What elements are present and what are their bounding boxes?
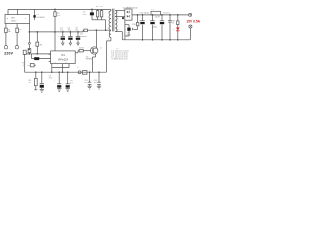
capacitor C4 (61, 32, 65, 43)
LED VD3 red indicator (173, 25, 180, 40)
winding polarity dot (122, 17, 124, 19)
svg-text:C1: C1 (36, 14, 40, 16)
resistor R6 (34, 72, 37, 89)
ground C15 (87, 86, 91, 89)
transformer T1 core (113, 9, 114, 32)
label C5 (68, 27, 71, 31)
junction dot bus cap C4 (62, 31, 64, 33)
junction dot gnd bus x177.8 (177, 39, 179, 41)
wire Q1 source (92, 54, 95, 72)
ground C9 (40, 89, 44, 92)
junction dot IC top feed (54, 31, 56, 33)
label output 15V 0.5A (186, 20, 200, 24)
diode D3 to IC (32, 54, 51, 60)
label C7 (49, 75, 52, 79)
transistor Q1 mosfet (91, 47, 98, 54)
wire AC live drop (5, 24, 7, 46)
label R3 (40, 44, 42, 46)
label RT1 (19, 29, 22, 33)
ground C16 (97, 86, 101, 89)
label R1 value (57, 13, 60, 17)
wire bias return (107, 37, 111, 72)
svg-text:4.7: 4.7 (23, 65, 27, 67)
label C4 (60, 27, 63, 31)
svg-text:L1: L1 (151, 9, 154, 11)
svg-text:C3: C3 (100, 6, 104, 8)
junction dot rail C13 (169, 14, 171, 16)
resistor R7 gate (79, 50, 83, 52)
svg-text:0.1: 0.1 (70, 82, 74, 84)
resistor R4 (23, 50, 26, 54)
label L1 (151, 9, 154, 11)
snubber capacitor C3 (100, 9, 102, 19)
capacitor C16 (97, 71, 101, 86)
fuse F1 (5, 28, 8, 32)
label 220V mains (4, 51, 13, 55)
wire +15V output rail (132, 14, 189, 16)
svg-text:R2: R2 (96, 6, 100, 8)
svg-text:0.1/400V: 0.1/400V (36, 17, 45, 19)
junction dot rail R10 (137, 14, 139, 16)
svg-text:C10 1000u: C10 1000u (139, 13, 149, 15)
thermistor RT1 (16, 28, 19, 32)
IC left pin stub a (49, 53, 51, 55)
pin label D mosfet (100, 47, 102, 49)
transformer T1 secondary winding (115, 10, 117, 31)
svg-text:2W10: 2W10 (11, 20, 17, 22)
wire bottom return bus (25, 71, 107, 73)
label C13 above rail (163, 13, 171, 15)
bridge rectifier BR1 (5, 15, 30, 24)
resistor R9 on return bus (82, 71, 87, 75)
svg-text:+: + (173, 29, 175, 31)
wire secondary top to D2 (115, 9, 125, 11)
resistor R10 feedback (134, 15, 139, 30)
resistor R3 (36, 32, 39, 54)
svg-text:15V 0.5A: 15V 0.5A (186, 20, 200, 24)
junction dot gnd bus x152.5 (152, 39, 154, 41)
wire secondary centertap (115, 32, 122, 40)
svg-text:R3: R3 (40, 44, 42, 46)
label R6 (28, 80, 31, 84)
plus mark C4 (58, 36, 60, 38)
note text block transformer data (111, 48, 129, 61)
wire IC ground bus (51, 68, 69, 73)
wire AC neutral drop (16, 24, 18, 46)
junction dot bus cap C6 (77, 31, 79, 33)
label R4 value (23, 63, 27, 67)
svg-text:a: a (77, 67, 79, 69)
pin number 7 secondary bottom (117, 30, 118, 32)
node TP circle (77, 67, 81, 74)
snubber resistor R2 (96, 9, 98, 19)
junction dot minus bus (29, 31, 31, 33)
label R2 above rail (96, 6, 100, 8)
junction dot rail C12 (161, 14, 163, 16)
capacitor C7 (54, 71, 62, 88)
svg-text:473: 473 (84, 82, 87, 84)
label R7 (79, 48, 84, 50)
svg-text:102: 102 (94, 82, 97, 84)
zener VD2 mark (132, 28, 133, 30)
output terminal plus (189, 13, 192, 16)
wire top DC+ rail (8, 8, 111, 10)
svg-text:1A: 1A (8, 30, 11, 33)
svg-text:1k: 1k (172, 23, 174, 25)
IC bottom pin 2 (63, 62, 67, 67)
inductor L1 on rail (151, 11, 161, 15)
output terminal minus (189, 25, 192, 28)
pin number 6 secondary mid (117, 19, 118, 21)
svg-text:D: D (100, 47, 102, 49)
capacitor C9 (40, 72, 44, 89)
label C2 value (83, 12, 87, 16)
junction dot gnd bus x162 (161, 39, 163, 41)
label Q1 (86, 56, 92, 60)
svg-text:VIPer22A: VIPer22A (58, 59, 69, 62)
resistor R8 LED series (177, 15, 179, 25)
label C15 (84, 80, 87, 84)
svg-text:+: + (54, 80, 56, 82)
arrow terminal C6 (77, 43, 80, 45)
arrow terminal C5 (69, 43, 72, 45)
capacitor C11 (150, 15, 155, 40)
svg-text:6: 6 (65, 62, 66, 64)
transformer T1 bias winding (109, 31, 111, 38)
diode D1 snubber (83, 29, 87, 32)
junction dot gnd bus x170 (169, 39, 171, 41)
IC left pin stub b (49, 60, 51, 62)
ground R6 (34, 89, 37, 91)
label F1 (8, 29, 11, 33)
wire snubber bottom join (92, 20, 106, 30)
capacitor C1 body (33, 9, 35, 20)
pin number 2 primary bottom (108, 28, 109, 30)
capacitor C10 (139, 15, 144, 40)
svg-text:+: + (125, 29, 127, 31)
svg-text:47n: 47n (75, 30, 78, 32)
label C6 (75, 27, 78, 31)
wire D2 common return (125, 20, 129, 40)
pin number 1 (57, 53, 58, 55)
svg-text:2: 2 (108, 28, 109, 30)
wire feedback node (25, 53, 51, 55)
arrow terminal C4 (62, 43, 65, 45)
label R10 (132, 24, 135, 26)
capacitor C12 (160, 15, 164, 40)
svg-text:IC1: IC1 (61, 54, 65, 57)
junction dot rail C10 (142, 14, 144, 16)
svg-text:1: 1 (19, 31, 21, 33)
capacitor C8 (66, 71, 70, 88)
wire DC minus bus (29, 30, 83, 32)
wire minus rail drop (28, 24, 30, 43)
resistor R1 startup (54, 9, 56, 32)
op IC U1 controller (51, 51, 76, 64)
svg-text:5: 5 (117, 12, 118, 14)
IC bottom pin 3 (68, 64, 70, 68)
chassis arrow (28, 43, 31, 45)
label C11 value below (152, 27, 157, 29)
svg-text:470u: 470u (127, 35, 131, 37)
svg-text:IRF840: IRF840 (86, 59, 92, 61)
label D2 type (123, 7, 139, 9)
ground C7 (57, 89, 61, 92)
label R8 (172, 20, 175, 24)
capacitor C15 (88, 71, 92, 86)
wire R4 down (24, 54, 26, 72)
junction dot C9 (41, 71, 43, 73)
svg-text:3: 3 (108, 38, 109, 40)
svg-text:47u: 47u (83, 14, 87, 16)
svg-text:R7 47: R7 47 (79, 48, 84, 50)
svg-text:47u: 47u (49, 78, 52, 80)
AC terminal N (15, 46, 18, 49)
ground C8 (66, 89, 70, 92)
capacitor C5 (68, 32, 72, 43)
capacitor C9 electrolytic (125, 25, 131, 36)
wire IC top pin (54, 32, 56, 51)
junction dot rail LED (177, 14, 179, 16)
label D1 value (80, 34, 88, 39)
junction dot bus cap C5 (70, 31, 72, 33)
thermistor RV1 (28, 45, 31, 54)
label C1 value (36, 14, 45, 19)
wire gate (83, 50, 90, 52)
resistor R5 horizontal (27, 64, 36, 68)
junction dot R3 branch (36, 31, 38, 33)
wire drain node (87, 29, 111, 31)
svg-text:+: + (58, 36, 60, 38)
capacitor C2 electrolytic (90, 9, 94, 19)
AC terminal L (4, 46, 7, 49)
pin number 3 bias (108, 38, 109, 40)
wire IC drive out (75, 51, 79, 53)
label L1 value below (155, 17, 161, 19)
svg-text:10u: 10u (68, 30, 71, 32)
svg-text:1000u: 1000u (152, 27, 157, 29)
svg-text:D2 MBRF10100: D2 MBRF10100 (123, 7, 139, 9)
capacitor C13 ceramic (168, 15, 172, 40)
IC bottom pin 1 (52, 62, 56, 67)
svg-text:1: 1 (108, 12, 109, 14)
label C10 above rail (139, 13, 149, 15)
svg-text:10: 10 (28, 82, 31, 84)
capacitor C6 (76, 32, 80, 43)
svg-text:6: 6 (117, 19, 118, 21)
svg-text:3.3uH: 3.3uH (155, 17, 161, 19)
junction dot node rail-C2 (91, 9, 93, 11)
label C16 (94, 80, 97, 84)
wire secondary ground bus (122, 28, 190, 40)
svg-text:10u: 10u (60, 30, 63, 32)
label C8 (70, 80, 74, 84)
wire Q1 drain riser (95, 30, 97, 47)
junction dot rail C11 (152, 14, 154, 16)
svg-text:47k: 47k (57, 15, 60, 17)
junction dot gnd bus x142.5 (142, 39, 144, 41)
pin number 1 primary top (108, 12, 109, 14)
pin number 5 secondary top (117, 12, 118, 14)
label C3 above rail (100, 6, 104, 8)
svg-text:220V: 220V (4, 51, 13, 55)
junction dot R6 (35, 71, 37, 73)
label C9 value (127, 33, 131, 37)
svg-text:R10: R10 (132, 24, 135, 26)
dual diode D2 package (125, 9, 132, 20)
wire bridge output right riser (17, 9, 19, 14)
wire secondary mid to D2 (115, 16, 125, 18)
svg-text:on EE16 ferrite core: on EE16 ferrite core (111, 58, 127, 61)
wire bridge output left riser (7, 9, 9, 14)
svg-text:5: 5 (55, 62, 56, 64)
svg-text:1N4007: 1N4007 (80, 36, 88, 38)
transformer T1 primary winding (109, 9, 111, 30)
junction dot node rail-R1 (54, 9, 56, 11)
